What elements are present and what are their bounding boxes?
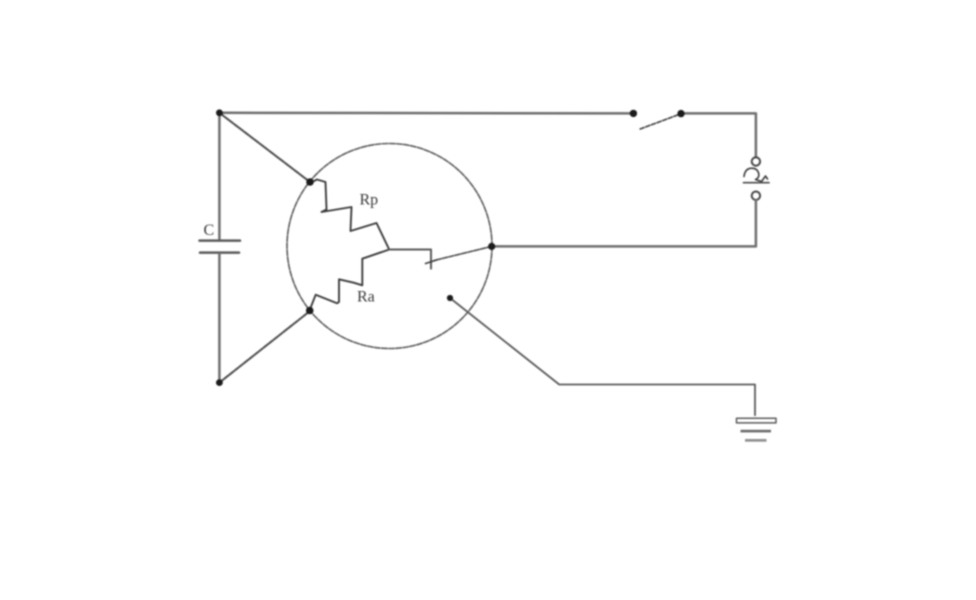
svg-text:C: C	[204, 222, 215, 239]
svg-text:Ra: Ra	[357, 289, 375, 306]
svg-text:Rp: Rp	[360, 192, 379, 209]
